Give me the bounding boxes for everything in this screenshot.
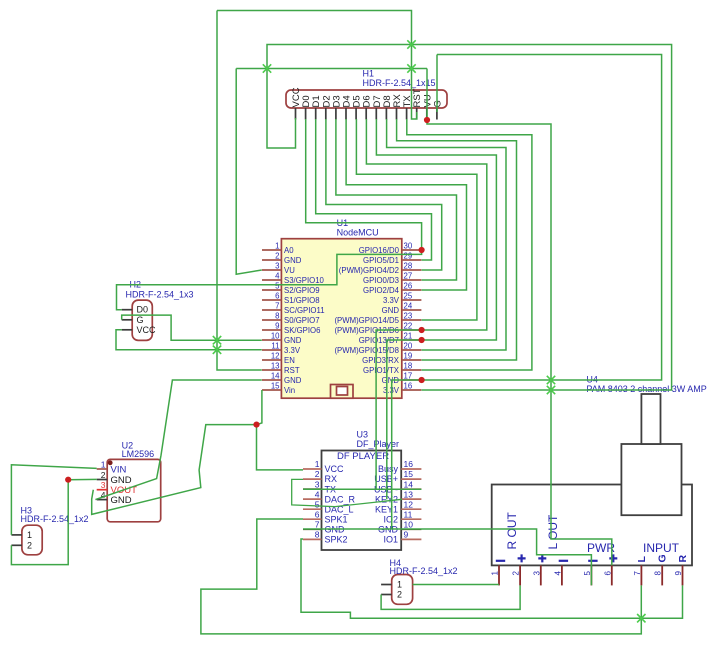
svg-text:2: 2 bbox=[397, 590, 402, 600]
svg-text:R: R bbox=[677, 555, 689, 563]
wire net VOUT: U2 pin3 diagonals to junction bbox=[92, 425, 257, 515]
svg-text:9: 9 bbox=[404, 530, 409, 540]
wire net D6: H1.D6 staircase to U1 right pin bbox=[366, 119, 486, 330]
svg-text:VIN: VIN bbox=[111, 465, 127, 476]
wire net H2.G to U1 pin10 GND bbox=[122, 315, 262, 340]
regulator U2 LM2596 bbox=[97, 459, 161, 521]
svg-text:G: G bbox=[432, 100, 443, 107]
svg-text:17: 17 bbox=[404, 372, 413, 381]
crossing marker: VU vertical over VCC pin16 line bbox=[547, 386, 555, 394]
svg-text:U3: U3 bbox=[357, 429, 369, 439]
wire net TX-USB-: U3 pin3 across to pin14 bbox=[303, 488, 421, 490]
crossing marker: VU vertical over GND pin17 line bbox=[547, 376, 555, 384]
svg-text:VCC: VCC bbox=[325, 464, 345, 474]
svg-text:11: 11 bbox=[271, 342, 279, 351]
junction: H3 pin2 / U2 GND node bbox=[65, 477, 71, 483]
connector H2 HDR-F-2.54_1x3 bbox=[122, 300, 156, 340]
svg-text:3: 3 bbox=[315, 479, 320, 489]
wire net RX: H1.RX staircase to U1 right pin bbox=[397, 119, 517, 360]
svg-text:25: 25 bbox=[404, 292, 413, 301]
svg-text:(PWM)GPIO15/D8: (PWM)GPIO15/D8 bbox=[334, 346, 399, 355]
crossing marker: RST vertical over H2.G line bbox=[213, 336, 221, 344]
wire net SPK1: U3 pin6 to U4 pin7 L bbox=[201, 519, 641, 634]
crossing marker: RST vertical over H2.VCC line bbox=[213, 346, 221, 354]
svg-text:16: 16 bbox=[404, 382, 413, 391]
svg-text:7: 7 bbox=[275, 302, 279, 311]
svg-text:HDR-F-2.54_1x2: HDR-F-2.54_1x2 bbox=[21, 514, 89, 524]
svg-text:HDR-F-2.54_1x3: HDR-F-2.54_1x3 bbox=[126, 289, 194, 299]
svg-text:GND: GND bbox=[284, 256, 302, 265]
wire net SPK2: U3 pin8 to U4 pin9 R bbox=[301, 539, 683, 618]
wire net H2.VCC to U1 pin11 3.3V bbox=[116, 330, 262, 350]
svg-text:20: 20 bbox=[404, 342, 413, 351]
svg-text:15: 15 bbox=[404, 469, 414, 479]
svg-text:1: 1 bbox=[397, 580, 402, 590]
crossing marker: RST vertical over VCC line bbox=[407, 40, 415, 48]
svg-text:S2/GPIO9: S2/GPIO9 bbox=[284, 286, 320, 295]
svg-text:IO2: IO2 bbox=[383, 515, 398, 525]
svg-text:GND: GND bbox=[284, 376, 302, 385]
svg-text:D0: D0 bbox=[137, 305, 149, 315]
svg-text:2: 2 bbox=[27, 541, 32, 551]
wire net GND: H3 pin2 to U2 pin2 bbox=[11, 479, 96, 564]
wire net D5: H1.D5 staircase to U1 right pin bbox=[356, 119, 477, 320]
svg-text:INPUT: INPUT bbox=[643, 541, 680, 555]
svg-text:5: 5 bbox=[275, 282, 280, 291]
svg-text:8: 8 bbox=[275, 312, 279, 321]
wire net D7: H1.D7 staircase to U1 right pin bbox=[376, 119, 496, 340]
amplifier U4 PAM 8403 2 channel 3W AMP bbox=[491, 394, 693, 585]
svg-text:3.3V: 3.3V bbox=[284, 346, 301, 355]
junction: U1 pin22 / D6 node bbox=[419, 327, 425, 333]
svg-text:DF PLAYER: DF PLAYER bbox=[337, 451, 389, 462]
svg-text:9: 9 bbox=[275, 322, 279, 331]
wire net VOUT: U1 pin15 Vin drop bbox=[257, 390, 262, 425]
svg-text:27: 27 bbox=[404, 272, 413, 281]
svg-text:3: 3 bbox=[101, 480, 106, 490]
wire net VU: drop to H1.VU pin bbox=[426, 69, 428, 121]
svg-text:SPK2: SPK2 bbox=[325, 535, 348, 545]
crossing marker: U4 pin7 vertical over SPK2 line bbox=[637, 614, 645, 622]
junction: H1.VU pin node bbox=[424, 117, 430, 123]
wire net D6 branch: U1 pin22 down to U3 USB- line bbox=[376, 330, 422, 489]
svg-text:2: 2 bbox=[512, 571, 521, 576]
svg-text:30: 30 bbox=[404, 242, 413, 251]
svg-text:13: 13 bbox=[271, 362, 280, 371]
svg-text:PAM 8403 2 channel 3W AMP: PAM 8403 2 channel 3W AMP bbox=[586, 384, 706, 394]
svg-text:IO1: IO1 bbox=[383, 535, 398, 545]
svg-text:S0/GPIO7: S0/GPIO7 bbox=[284, 316, 320, 325]
svg-text:SK/GPIO6: SK/GPIO6 bbox=[284, 326, 320, 335]
svg-text:4: 4 bbox=[275, 272, 280, 281]
svg-text:3: 3 bbox=[275, 262, 279, 271]
svg-text:SC/GPIO11: SC/GPIO11 bbox=[284, 306, 325, 315]
svg-text:12: 12 bbox=[404, 499, 414, 509]
svg-text:HDR-F-2.54_1x2: HDR-F-2.54_1x2 bbox=[390, 566, 458, 576]
crossing marker: VCC vertical over VU line bbox=[263, 64, 271, 72]
wire net VOUT: junction down to U3 pin1 VCC bbox=[257, 425, 304, 470]
svg-text:23: 23 bbox=[404, 312, 413, 321]
svg-text:7: 7 bbox=[633, 571, 642, 576]
svg-text:GPIO1/TX: GPIO1/TX bbox=[363, 366, 400, 375]
svg-text:G: G bbox=[657, 554, 669, 562]
wire net GND: U1 pin14 diagonal to U2 pin4 bbox=[95, 380, 261, 500]
svg-text:G: G bbox=[137, 315, 144, 325]
svg-text:EN: EN bbox=[284, 356, 295, 365]
svg-text:L: L bbox=[636, 556, 648, 563]
svg-text:11: 11 bbox=[404, 510, 413, 520]
svg-text:9: 9 bbox=[674, 571, 683, 576]
wire net GND: U1 pin17 branch down to U3 GND line bbox=[392, 380, 422, 529]
svg-text:6: 6 bbox=[275, 292, 279, 301]
wire net VIN: H3 pin1 to U2 pin1 VIN bbox=[11, 465, 96, 535]
svg-text:3: 3 bbox=[532, 571, 541, 576]
wire net VU: to U4 PWR+ pin6 bbox=[427, 120, 612, 565]
svg-text:14: 14 bbox=[271, 372, 280, 381]
junction: U1 pin30 / D0 / H2.D0 node bbox=[419, 247, 425, 253]
svg-text:8: 8 bbox=[654, 571, 663, 576]
wire net RST: H1.RST top route bbox=[217, 11, 417, 120]
svg-text:1: 1 bbox=[27, 530, 32, 540]
svg-text:1: 1 bbox=[101, 460, 106, 470]
svg-text:1: 1 bbox=[491, 571, 500, 576]
svg-text:2: 2 bbox=[101, 470, 106, 480]
svg-text:21: 21 bbox=[404, 332, 413, 341]
wire net VU: horizontal y=68.5 bbox=[236, 68, 427, 70]
svg-text:S1/GPIO8: S1/GPIO8 bbox=[284, 296, 320, 305]
svg-text:10: 10 bbox=[404, 520, 414, 530]
svg-text:S3/GPIO10: S3/GPIO10 bbox=[284, 276, 325, 285]
wire net ROUT-: H4 pin1 to U4 pin1 bbox=[413, 584, 499, 586]
connector H1 HDR-F-2.54_1x15 bbox=[286, 87, 447, 119]
wire net D3: H1.D3 staircase to U1 right pin bbox=[336, 119, 457, 280]
wire net GND: top route to U1 pin17 bbox=[422, 55, 662, 381]
svg-text:DAC_R: DAC_R bbox=[325, 494, 356, 504]
crossing marker: RST vertical over VU line bbox=[407, 64, 415, 72]
svg-text:VCC: VCC bbox=[137, 325, 157, 335]
svg-text:A0: A0 bbox=[284, 246, 294, 255]
wire net ROUT+: H4 pin2 to U4 pin2 bbox=[381, 585, 520, 609]
svg-text:18: 18 bbox=[404, 362, 413, 371]
svg-text:2: 2 bbox=[315, 469, 320, 479]
svg-text:GND: GND bbox=[284, 336, 302, 345]
connector H4 HDR-F-2.54_1x2 bbox=[381, 575, 413, 605]
svg-text:2: 2 bbox=[275, 252, 279, 261]
svg-text:8: 8 bbox=[315, 530, 320, 540]
svg-text:KEY1: KEY1 bbox=[375, 504, 398, 514]
wire net VCC: H1.VCC to U1 pin16 bbox=[267, 45, 672, 391]
svg-text:GND: GND bbox=[111, 495, 132, 506]
wire net D8: H1.D8 staircase to U1 right pin bbox=[387, 119, 506, 350]
wire net D0: H1.D0 staircase to U1 right pin bbox=[306, 119, 422, 250]
svg-text:29: 29 bbox=[404, 252, 413, 261]
svg-text:DF_Player: DF_Player bbox=[357, 439, 400, 449]
wire net VU: left vertical + diagonal to U1 pin3 bbox=[236, 69, 262, 275]
svg-text:3.3V: 3.3V bbox=[383, 296, 400, 305]
svg-text:5: 5 bbox=[583, 571, 592, 576]
svg-text:26: 26 bbox=[404, 282, 413, 291]
svg-text:GPIO0/D3: GPIO0/D3 bbox=[363, 276, 399, 285]
wire net D4: H1.D4 staircase to U1 right pin bbox=[346, 119, 466, 290]
svg-text:4: 4 bbox=[553, 571, 562, 576]
svg-text:4: 4 bbox=[101, 490, 106, 500]
svg-text:HDR-F-2.54_1x15: HDR-F-2.54_1x15 bbox=[363, 78, 436, 88]
svg-text:SPK1: SPK1 bbox=[325, 515, 348, 525]
svg-text:Vin: Vin bbox=[284, 386, 295, 395]
svg-text:19: 19 bbox=[404, 352, 413, 361]
wire net RX-KEY2: U3 pin2 diagonal to pin13 bbox=[292, 479, 402, 506]
wire net TX: H1.TX staircase to U1 right pin bbox=[407, 119, 532, 370]
svg-text:24: 24 bbox=[404, 302, 413, 311]
junction: VOUT / Vin / U3 VCC node bbox=[253, 422, 259, 428]
svg-text:Busy: Busy bbox=[378, 464, 399, 474]
svg-text:7: 7 bbox=[315, 520, 320, 530]
module U3 DF_Player bbox=[303, 451, 421, 551]
svg-text:16: 16 bbox=[404, 459, 414, 469]
svg-text:4: 4 bbox=[315, 489, 320, 499]
junction: U1 pin17 GND node bbox=[419, 377, 425, 383]
svg-text:10: 10 bbox=[271, 332, 280, 341]
svg-text:GPIO5/D1: GPIO5/D1 bbox=[363, 256, 399, 265]
connector H3 HDR-F-2.54_1x2 bbox=[11, 525, 42, 555]
svg-text:LM2596: LM2596 bbox=[122, 449, 155, 459]
svg-text:(PWM)GPIO4/D2: (PWM)GPIO4/D2 bbox=[339, 266, 399, 275]
svg-text:14: 14 bbox=[404, 479, 414, 489]
wire net GND: U3 pin7/pin10 line to U4 pin5 PWR- bbox=[303, 529, 591, 585]
svg-text:NodeMCU: NodeMCU bbox=[337, 228, 379, 238]
wire net D7 branch: U1 pin21 down to U3 KEY2 line bbox=[387, 340, 422, 499]
svg-text:6: 6 bbox=[603, 571, 612, 576]
wire net D1: H1.D1 staircase to U1 right pin bbox=[316, 119, 432, 260]
svg-text:R OUT: R OUT bbox=[505, 512, 519, 550]
svg-text:1: 1 bbox=[275, 242, 279, 251]
svg-text:12: 12 bbox=[271, 352, 280, 361]
svg-text:RX: RX bbox=[325, 474, 338, 484]
svg-text:L OUT: L OUT bbox=[546, 514, 560, 550]
svg-text:6: 6 bbox=[315, 510, 320, 520]
mcu U1 NodeMCU bbox=[262, 239, 421, 399]
svg-text:15: 15 bbox=[271, 382, 280, 391]
svg-text:H1: H1 bbox=[363, 69, 375, 79]
svg-text:1: 1 bbox=[315, 459, 320, 469]
svg-text:GPIO3/RX: GPIO3/RX bbox=[362, 356, 400, 365]
wire net RST: left vertical to U1 pin13 bbox=[217, 11, 262, 371]
svg-text:VU: VU bbox=[284, 266, 295, 275]
svg-text:13: 13 bbox=[404, 489, 414, 499]
svg-text:22: 22 bbox=[404, 322, 413, 331]
svg-text:GPIO16/D0: GPIO16/D0 bbox=[359, 246, 400, 255]
wire net D2: H1.D2 staircase to U1 right pin bbox=[326, 119, 442, 270]
svg-text:5: 5 bbox=[315, 499, 320, 509]
svg-text:GPIO2/D4: GPIO2/D4 bbox=[363, 286, 400, 295]
junction: U1 pin21 / D7 node bbox=[419, 337, 425, 343]
wire net D0 branch: U1 pin30 to H2.D0 bbox=[117, 250, 422, 310]
wire net GND: H1.G stub riser bbox=[436, 55, 438, 113]
svg-text:(PWM)GPIO14/D5: (PWM)GPIO14/D5 bbox=[334, 316, 399, 325]
svg-text:28: 28 bbox=[404, 262, 413, 271]
svg-text:GND: GND bbox=[382, 306, 400, 315]
svg-text:RST: RST bbox=[284, 366, 300, 375]
